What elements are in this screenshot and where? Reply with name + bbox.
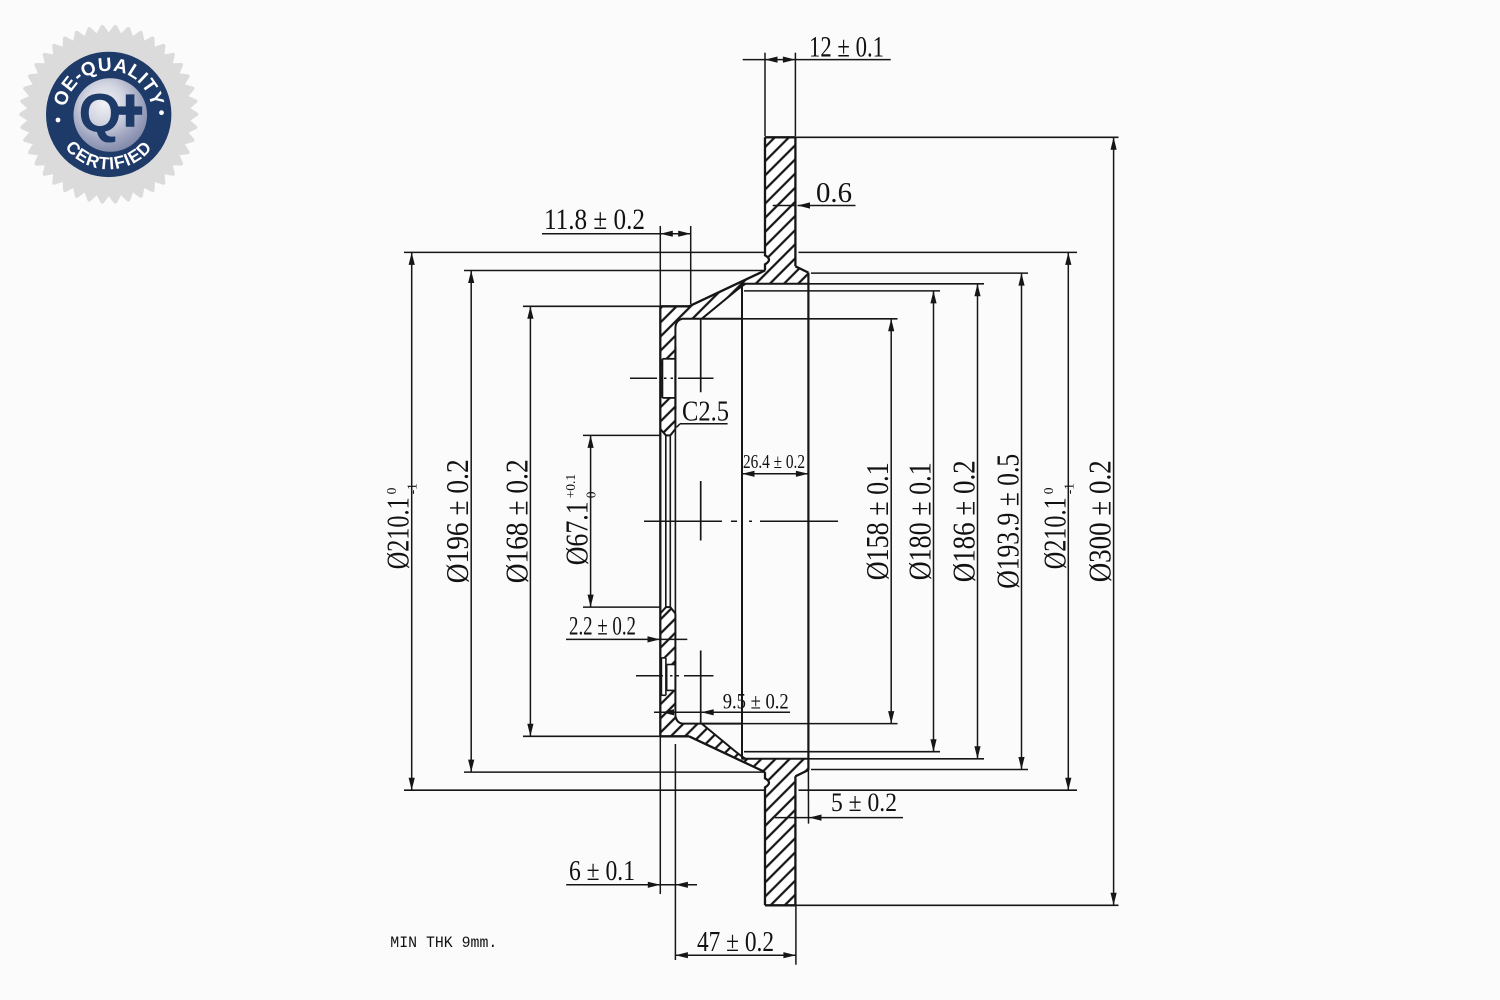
svg-text:6 ± 0.1: 6 ± 0.1	[569, 856, 635, 887]
Ø193.9 extension lines	[811, 272, 1028, 274]
svg-text:2.2 ± 0.2: 2.2 ± 0.2	[569, 612, 636, 641]
svg-text:47 ± 0.2: 47 ± 0.2	[697, 926, 774, 958]
section: bottom half, hatched	[660, 607, 808, 905]
stud hole (top)	[662, 359, 675, 398]
dim 2.2 ± 0.2	[566, 638, 687, 640]
svg-text:Ø196 ± 0.2: Ø196 ± 0.2	[439, 459, 475, 583]
Ø67.1 extension lines	[583, 434, 660, 436]
svg-text:Ø210.1: Ø210.1	[1036, 497, 1072, 569]
certification badge gear	[21, 27, 196, 202]
svg-text:-1: -1	[405, 483, 420, 494]
svg-text:C2.5: C2.5	[682, 396, 729, 428]
pocket face x=742	[741, 284, 743, 759]
Ø210.1 extension lines	[404, 251, 765, 253]
bore chamfers	[660, 429, 666, 435]
Ø180 extension lines	[744, 290, 940, 292]
dim Ø180 ± 0.1	[933, 291, 935, 752]
svg-text:26.4 ± 0.2: 26.4 ± 0.2	[743, 452, 805, 473]
cone outer surfaces	[689, 271, 765, 307]
svg-text:-1: -1	[1061, 483, 1076, 494]
centerline (axis)	[644, 520, 839, 522]
Ø158 pocket lines + extensions	[682, 318, 742, 320]
bore edges	[666, 434, 670, 436]
boss edge segments x=700.7	[700, 319, 702, 392]
svg-text:Ø300 ± 0.2: Ø300 ± 0.2	[1082, 460, 1118, 582]
svg-text:MIN THK 9mm.: MIN THK 9mm.	[390, 934, 497, 952]
dim Ø196 ± 0.2	[470, 271, 472, 773]
friction ring top face / Ø300 extent	[765, 136, 795, 138]
dim Ø300 ± 0.2	[1113, 137, 1115, 905]
dim Ø67.1	[590, 435, 592, 607]
Ø168 extension lines	[523, 305, 660, 307]
dim 0.6 leader	[773, 205, 796, 207]
Ø196 extension lines	[464, 270, 765, 272]
Ø300 top/bottom lines to dim	[795, 136, 1118, 138]
dim Ø210.1 right	[1067, 252, 1069, 790]
stud hole axis (top)	[630, 377, 714, 379]
svg-text:11.8 ± 0.2: 11.8 ± 0.2	[544, 203, 645, 236]
friction ring outline	[765, 137, 769, 270]
svg-text:12 ± 0.1: 12 ± 0.1	[809, 31, 884, 64]
svg-text:Ø180 ± 0.1: Ø180 ± 0.1	[902, 462, 938, 580]
dim 11.8 ± 0.2	[659, 226, 661, 306]
dim 9.5 ± 0.2	[654, 711, 790, 713]
svg-text:0: 0	[384, 487, 399, 494]
label C2.5	[680, 423, 728, 425]
drum face x=808.4	[807, 273, 809, 770]
svg-text:0: 0	[1041, 487, 1056, 494]
dim 26.4 ± 0.2	[742, 473, 808, 475]
dim Ø158 ± 0.1	[890, 319, 892, 724]
section: friction ring + cone + hat wall (top half), hatched	[660, 137, 808, 435]
svg-text:5 ± 0.2: 5 ± 0.2	[831, 788, 897, 817]
svg-text:0: 0	[584, 491, 599, 498]
stud hole outline (top)	[661, 359, 663, 398]
svg-text:Ø193.9 ± 0.5: Ø193.9 ± 0.5	[990, 454, 1026, 589]
svg-text:0.6: 0.6	[816, 177, 852, 209]
svg-text:+0.1: +0.1	[563, 474, 578, 499]
Ø186 pocket lines + extensions	[742, 283, 809, 285]
dim 5 ± 0.2	[807, 770, 809, 824]
badge navy ring	[46, 52, 171, 177]
svg-text:Ø186 ± 0.2: Ø186 ± 0.2	[946, 460, 982, 582]
badge plus sign	[118, 106, 143, 114]
badge sphere	[74, 78, 148, 152]
dim Ø186 ± 0.2	[977, 284, 979, 759]
stud hole axis (bottom)	[636, 675, 714, 677]
stud hole cutouts (bottom)	[661, 658, 666, 695]
cone inner surfaces	[702, 284, 746, 319]
dim 12 ± 0.1	[764, 53, 766, 137]
badge side dots	[56, 118, 61, 123]
svg-text:Ø158 ± 0.1: Ø158 ± 0.1	[859, 462, 895, 580]
hat inner fillets to pocket	[675, 319, 682, 327]
dim Ø210.1 left	[411, 252, 413, 790]
svg-text:Ø210.1: Ø210.1	[380, 497, 416, 569]
svg-text:Ø67.1: Ø67.1	[559, 501, 595, 565]
dim 6 ± 0.1	[659, 736, 661, 894]
dim 47 ± 0.2	[795, 906, 797, 965]
dim Ø168 ± 0.2	[529, 306, 531, 736]
svg-text:9.5 ± 0.2: 9.5 ± 0.2	[723, 689, 789, 714]
bottom slot outlines	[660, 658, 662, 695]
dim Ø193.9 ± 0.5	[1021, 273, 1023, 769]
svg-text:Ø168 ± 0.2: Ø168 ± 0.2	[498, 459, 534, 583]
hat wall faces	[659, 306, 661, 736]
svg-text:Q: Q	[79, 82, 122, 144]
